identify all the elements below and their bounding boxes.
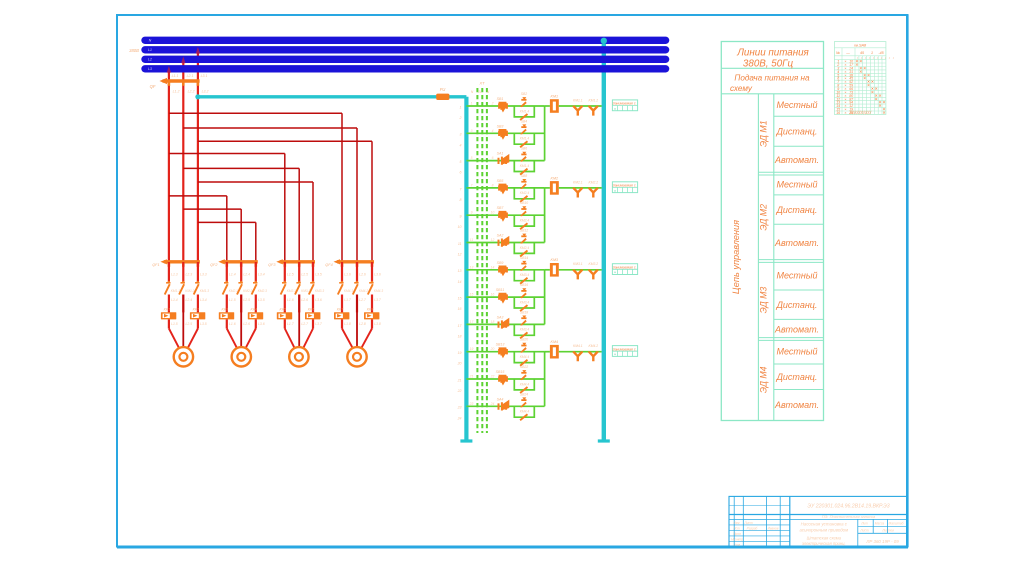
svg-text:асинхронным приводом: асинхронным приводом xyxy=(799,528,848,533)
svg-text:2: 2 xyxy=(491,102,494,106)
svg-text:L3.7: L3.7 xyxy=(315,322,322,326)
svg-text:SA2: SA2 xyxy=(497,234,504,238)
svg-text:N: N xyxy=(487,90,490,94)
svg-text:QF3: QF3 xyxy=(268,263,276,267)
svg-text:380В: 380В xyxy=(129,48,139,53)
svg-text:1: 1 xyxy=(471,102,473,106)
svg-text:Дистанц.: Дистанц. xyxy=(776,300,818,310)
svg-text:KM3.4: KM3.4 xyxy=(520,328,530,332)
svg-text:ЭД М1: ЭД М1 xyxy=(758,120,768,147)
svg-text:2: 2 xyxy=(459,116,462,120)
svg-text:KM4.2: KM4.2 xyxy=(359,289,368,293)
svg-text:SA1: SA1 xyxy=(497,152,504,156)
svg-text:KM3: KM3 xyxy=(551,258,560,262)
svg-text:KM2.2: KM2.2 xyxy=(589,180,599,184)
svg-text:20: 20 xyxy=(490,347,495,351)
svg-text:SA4: SA4 xyxy=(497,397,504,401)
svg-text:—: — xyxy=(845,51,850,55)
svg-text:7: 7 xyxy=(460,187,463,191)
svg-text:KM4.4: KM4.4 xyxy=(520,410,530,414)
svg-text:SA3: SA3 xyxy=(497,315,504,319)
svg-text:KM3.4: KM3.4 xyxy=(520,273,530,277)
svg-text:16: 16 xyxy=(836,111,840,115)
svg-text:KM4.4: KM4.4 xyxy=(520,382,530,386)
svg-text:L2.4: L2.4 xyxy=(185,298,192,302)
svg-text:KK2: KK2 xyxy=(193,308,200,312)
svg-text:L3.6: L3.6 xyxy=(374,273,381,277)
svg-text:22: 22 xyxy=(490,375,495,379)
svg-text:L2.3: L2.3 xyxy=(185,273,192,277)
svg-text:SB20: SB20 xyxy=(520,338,528,342)
svg-text:SB12: SB12 xyxy=(520,229,528,233)
svg-text:схему: схему xyxy=(730,84,753,93)
svg-text:KM2.1: KM2.1 xyxy=(573,180,583,184)
svg-text:×: × xyxy=(614,270,617,275)
svg-text:✕: ✕ xyxy=(882,100,885,105)
svg-text:SB5: SB5 xyxy=(497,179,504,183)
svg-text:L3.5: L3.5 xyxy=(258,298,265,302)
svg-text:SB6: SB6 xyxy=(521,147,528,151)
svg-text:QF: QF xyxy=(150,84,156,89)
svg-text:FU: FU xyxy=(440,87,447,92)
svg-text:20: 20 xyxy=(457,362,462,366)
svg-text:KM1.2: KM1.2 xyxy=(589,98,599,102)
svg-text:Дистанц.: Дистанц. xyxy=(776,126,818,136)
svg-text:L3.4: L3.4 xyxy=(258,273,265,277)
svg-text:×: × xyxy=(844,111,846,115)
svg-text:KM2.2: KM2.2 xyxy=(243,289,252,293)
svg-text:ЭУ 220301.024.96.2В14.19.ВКР.: ЭУ 220301.024.96.2В14.19.ВКР.Э3 xyxy=(807,504,889,510)
svg-text:Автомат.: Автомат. xyxy=(774,238,819,248)
svg-text:L2.5: L2.5 xyxy=(301,273,308,277)
svg-text:Масса: Масса xyxy=(875,522,885,526)
svg-text:Цепь управления: Цепь управления xyxy=(731,220,741,294)
svg-text:L1.2: L1.2 xyxy=(173,90,180,94)
svg-text:✕: ✕ xyxy=(878,103,881,108)
svg-text:8: 8 xyxy=(492,183,494,187)
svg-text:SB7: SB7 xyxy=(497,206,505,210)
svg-text:10: 10 xyxy=(458,225,462,229)
svg-text:15: 15 xyxy=(458,297,462,301)
svg-text:3: 3 xyxy=(460,133,462,137)
svg-text:L3.3: L3.3 xyxy=(200,273,207,277)
svg-text:/: / xyxy=(888,56,891,60)
svg-text:KM2.3: KM2.3 xyxy=(258,289,267,293)
svg-text:8: 8 xyxy=(460,198,462,202)
svg-text:17: 17 xyxy=(470,320,474,324)
svg-text:Подача питания на: Подача питания на xyxy=(734,74,810,83)
svg-text:×: × xyxy=(614,352,617,357)
svg-text:L1.4: L1.4 xyxy=(229,273,236,277)
svg-text:45: 45 xyxy=(860,51,864,55)
svg-text:KK3: KK3 xyxy=(221,308,228,312)
svg-text:21: 21 xyxy=(457,378,462,382)
svg-text:Разраб: Разраб xyxy=(747,527,758,531)
svg-text:SB8: SB8 xyxy=(521,174,528,178)
svg-text:KK4: KK4 xyxy=(250,308,257,312)
svg-text:L3: L3 xyxy=(148,67,152,71)
svg-text:SB18: SB18 xyxy=(520,310,528,314)
svg-text:✕: ✕ xyxy=(855,62,858,67)
svg-text:✕: ✕ xyxy=(875,86,878,91)
svg-text:Лист: Лист xyxy=(743,521,753,525)
svg-text:Листов: Листов xyxy=(881,529,894,533)
svg-text:SB11: SB11 xyxy=(496,288,505,292)
svg-text:14: 14 xyxy=(458,280,462,284)
svg-text:L3.8: L3.8 xyxy=(374,322,381,326)
svg-text:KK7: KK7 xyxy=(337,308,345,312)
svg-text:×: × xyxy=(614,188,617,193)
svg-text:хв.SA8: хв.SA8 xyxy=(853,44,867,48)
svg-text:✕: ✕ xyxy=(867,72,870,77)
svg-text:SB16: SB16 xyxy=(520,283,528,287)
svg-text:SB13: SB13 xyxy=(496,343,505,347)
svg-text:Масштаб: Масштаб xyxy=(889,522,904,526)
svg-text:KM1.4: KM1.4 xyxy=(520,164,530,168)
svg-text:L1: L1 xyxy=(148,48,152,52)
svg-text:/: / xyxy=(892,56,895,60)
svg-text:4: 4 xyxy=(492,129,494,133)
svg-text:XT: XT xyxy=(478,81,485,86)
svg-text:L2.8: L2.8 xyxy=(359,322,366,326)
svg-text:SB14: SB14 xyxy=(520,256,528,260)
svg-text:Местный: Местный xyxy=(777,271,818,281)
svg-text:SB2: SB2 xyxy=(521,92,528,96)
svg-text:SB15: SB15 xyxy=(496,370,505,374)
svg-text:15: 15 xyxy=(470,293,474,297)
svg-text:ЭД М4: ЭД М4 xyxy=(758,366,768,393)
svg-text:19: 19 xyxy=(458,351,462,355)
svg-text:21: 21 xyxy=(469,375,474,379)
svg-text:╳╳╳╳╳╳╳╳╳╳╳╳: ╳╳╳╳╳╳╳╳╳╳╳╳ xyxy=(848,111,872,115)
svg-text:QF2: QF2 xyxy=(210,263,218,267)
svg-text:L1.8: L1.8 xyxy=(344,322,351,326)
svg-text:×: × xyxy=(614,106,617,111)
svg-text:✕: ✕ xyxy=(863,66,866,71)
svg-text:✕: ✕ xyxy=(867,83,870,88)
svg-text:16: 16 xyxy=(458,307,462,311)
svg-text:KM3.1: KM3.1 xyxy=(573,262,583,266)
svg-text:Дистанц.: Дистанц. xyxy=(776,205,818,215)
svg-text:22: 22 xyxy=(457,389,462,393)
svg-text:1: 1 xyxy=(871,51,873,55)
svg-text:Автомат.: Автомат. xyxy=(774,324,819,334)
svg-text:KM4: KM4 xyxy=(551,340,559,344)
svg-text:Лист: Лист xyxy=(859,529,869,533)
svg-text:Автомат.: Автомат. xyxy=(774,155,819,165)
svg-text:L2.6: L2.6 xyxy=(243,322,250,326)
svg-text:L1.6: L1.6 xyxy=(287,298,294,302)
svg-text:Автомат.: Автомат. xyxy=(774,400,819,410)
svg-text:Лст: Лст xyxy=(732,527,740,531)
svg-text:✕: ✕ xyxy=(871,79,874,84)
svg-text:электрическая принц.: электрическая принц. xyxy=(802,541,846,546)
svg-text:L3.2: L3.2 xyxy=(202,90,209,94)
svg-text:5: 5 xyxy=(471,156,473,160)
svg-text:L1.5: L1.5 xyxy=(171,322,178,326)
svg-text:L3.6: L3.6 xyxy=(258,322,265,326)
svg-text:KM4.2: KM4.2 xyxy=(589,344,599,348)
svg-text:Местный: Местный xyxy=(777,100,818,110)
svg-text:KK1: KK1 xyxy=(164,308,171,312)
svg-text:KM1.4: KM1.4 xyxy=(520,109,530,113)
svg-text:KM1.3: KM1.3 xyxy=(200,289,209,293)
svg-text:L1.4: L1.4 xyxy=(171,298,178,302)
svg-text:✕: ✕ xyxy=(859,69,862,74)
svg-text:10: 10 xyxy=(491,211,495,215)
svg-text:✕: ✕ xyxy=(875,96,878,101)
svg-text:ЛР 360 19Р - 09: ЛР 360 19Р - 09 xyxy=(865,539,899,544)
svg-text:17: 17 xyxy=(458,324,463,328)
svg-text:SB22: SB22 xyxy=(520,365,528,369)
svg-text:24: 24 xyxy=(457,416,462,420)
svg-text:L1.7: L1.7 xyxy=(344,298,351,302)
svg-text:19: 19 xyxy=(470,347,474,351)
svg-text:KK5: KK5 xyxy=(279,308,286,312)
svg-text:/: / xyxy=(884,56,887,60)
svg-text:L3.5: L3.5 xyxy=(200,322,207,326)
svg-text:KK8: KK8 xyxy=(367,308,374,312)
svg-text:16: 16 xyxy=(491,293,495,297)
svg-text:6: 6 xyxy=(460,171,462,175)
svg-text:L2.6: L2.6 xyxy=(301,298,308,302)
svg-text:L1.3: L1.3 xyxy=(171,273,178,277)
svg-text:L1.7: L1.7 xyxy=(287,322,294,326)
svg-text:18: 18 xyxy=(491,320,495,324)
svg-text:KM1.2: KM1.2 xyxy=(185,289,194,293)
svg-text:L2.5: L2.5 xyxy=(243,298,250,302)
svg-text:7: 7 xyxy=(471,183,473,187)
svg-text:KM3.4: KM3.4 xyxy=(520,300,530,304)
svg-text:6: 6 xyxy=(492,156,494,160)
svg-text:L3.4: L3.4 xyxy=(200,298,207,302)
svg-text:SB9: SB9 xyxy=(497,261,504,265)
svg-text:✕: ✕ xyxy=(878,93,881,98)
svg-text:SB24: SB24 xyxy=(520,392,528,396)
svg-text:SB1: SB1 xyxy=(497,97,504,101)
svg-text:KM4.3: KM4.3 xyxy=(374,289,383,293)
svg-text:ЭД М3: ЭД М3 xyxy=(758,287,768,314)
svg-text:ЭД М2: ЭД М2 xyxy=(758,204,768,231)
svg-text:KM3.2: KM3.2 xyxy=(589,262,599,266)
svg-text:L1.1: L1.1 xyxy=(172,74,179,78)
svg-text:Нконтр: Нконтр xyxy=(731,538,743,542)
svg-text:KM1: KM1 xyxy=(551,94,559,98)
svg-text:1: 1 xyxy=(460,105,462,109)
svg-text:-45: -45 xyxy=(878,51,883,55)
svg-text:11: 11 xyxy=(470,238,474,242)
svg-text:12: 12 xyxy=(458,253,462,257)
svg-text:KM2.1: KM2.1 xyxy=(229,289,238,293)
svg-text:9: 9 xyxy=(460,215,462,219)
svg-text:Штатская схема: Штатская схема xyxy=(807,536,842,541)
svg-text:4: 4 xyxy=(460,143,462,147)
svg-text:L1.5: L1.5 xyxy=(287,273,294,277)
svg-text:Линии питания: Линии питания xyxy=(736,48,809,59)
svg-text:KM2: KM2 xyxy=(551,176,559,180)
svg-text:KM2.4: KM2.4 xyxy=(520,246,530,250)
svg-text:13: 13 xyxy=(470,265,474,269)
svg-text:SB4: SB4 xyxy=(521,119,528,123)
svg-text:Дистанц.: Дистанц. xyxy=(776,372,818,382)
svg-text:Утв: Утв xyxy=(734,543,741,547)
svg-text:L3.5: L3.5 xyxy=(315,273,322,277)
svg-text:L2: L2 xyxy=(148,58,152,62)
svg-text:KM1.4: KM1.4 xyxy=(520,137,530,141)
svg-text:2L: 2L xyxy=(477,90,482,94)
svg-text:KM3.2: KM3.2 xyxy=(301,289,310,293)
svg-text:24: 24 xyxy=(490,402,495,406)
svg-text:N: N xyxy=(471,90,474,94)
svg-text:Местный: Местный xyxy=(777,179,818,189)
svg-text:KK6: KK6 xyxy=(308,308,315,312)
svg-text:L1.6: L1.6 xyxy=(229,322,236,326)
svg-text:L3.1: L3.1 xyxy=(201,74,208,78)
svg-text:Изм: Изм xyxy=(734,521,741,525)
svg-text:11: 11 xyxy=(458,242,462,246)
svg-text:SB3: SB3 xyxy=(497,124,504,128)
svg-text:18: 18 xyxy=(458,334,462,338)
svg-text:KM2.4: KM2.4 xyxy=(520,219,530,223)
svg-text:12: 12 xyxy=(491,238,495,242)
svg-text:L3.7: L3.7 xyxy=(374,298,381,302)
svg-text:L2.7: L2.7 xyxy=(359,298,366,302)
svg-text:KM4.4: KM4.4 xyxy=(520,355,530,359)
svg-text:L2.7: L2.7 xyxy=(301,322,308,326)
svg-text:QF1: QF1 xyxy=(152,263,159,267)
svg-text:13: 13 xyxy=(458,269,462,273)
svg-text:Иванов: Иванов xyxy=(768,527,779,531)
svg-text:KM3.1: KM3.1 xyxy=(287,289,296,293)
svg-text:Насосная установка с: Насосная установка с xyxy=(801,522,848,527)
svg-text:9: 9 xyxy=(471,211,473,215)
svg-text:KM2.4: KM2.4 xyxy=(520,191,530,195)
svg-text:SB10: SB10 xyxy=(520,201,528,205)
svg-text:L1.6: L1.6 xyxy=(344,273,351,277)
svg-text:KM4.1: KM4.1 xyxy=(344,289,353,293)
svg-text:L2.6: L2.6 xyxy=(359,273,366,277)
svg-text:№: № xyxy=(836,51,840,55)
svg-text:KM1.1: KM1.1 xyxy=(573,98,583,102)
svg-text:23: 23 xyxy=(457,406,462,410)
svg-text:L1.5: L1.5 xyxy=(229,298,236,302)
svg-text:23: 23 xyxy=(469,402,474,406)
svg-text:✕: ✕ xyxy=(882,110,885,115)
svg-text:QF4: QF4 xyxy=(325,263,332,267)
svg-text:ПЭ. Пояснительная записка: ПЭ. Пояснительная записка xyxy=(822,514,876,519)
svg-text:Местный: Местный xyxy=(777,347,818,357)
svg-text:L2.1: L2.1 xyxy=(187,74,194,78)
svg-text:L3.6: L3.6 xyxy=(315,298,322,302)
svg-text:14: 14 xyxy=(491,265,495,269)
svg-text:5: 5 xyxy=(460,160,462,164)
svg-text:3: 3 xyxy=(471,129,473,133)
svg-text:KM1.1: KM1.1 xyxy=(171,289,180,293)
svg-text:L2.2: L2.2 xyxy=(188,90,195,94)
svg-text:Лит: Лит xyxy=(860,522,868,526)
svg-text:KM3.3: KM3.3 xyxy=(315,289,324,293)
svg-text:KM4.1: KM4.1 xyxy=(573,344,583,348)
svg-text:L2.4: L2.4 xyxy=(243,273,250,277)
svg-text:Пров: Пров xyxy=(733,532,741,536)
svg-text:L2.5: L2.5 xyxy=(185,322,192,326)
svg-text:380В, 50Гц: 380В, 50Гц xyxy=(743,59,794,70)
